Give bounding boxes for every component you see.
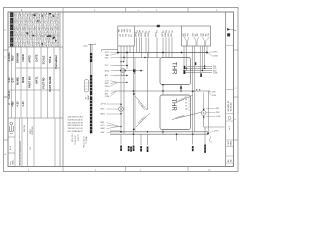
svg-text:REV: REV <box>11 55 15 61</box>
svg-text:YNN EFJ7Q-XI: YNN EFJ7Q-XI <box>68 128 81 130</box>
small dark marks above rail y91 <box>196 89 200 91</box>
svg-text:PK10: PK10 <box>105 86 110 88</box>
svg-text:MC 4-20-1: MC 4-20-1 <box>72 134 74 143</box>
svg-text:B31: B31 <box>105 93 108 95</box>
terminal trio rows lower converging <box>101 122 105 130</box>
relay contact rails right cluster <box>184 66 212 72</box>
svg-text:PK1: PK1 <box>216 108 219 110</box>
wires dropping from label row to buses <box>137 38 172 58</box>
svg-text:MV2: MV2 <box>105 83 109 85</box>
right strip rotated text blocks <box>227 101 233 162</box>
terminal single row labels <box>105 65 109 77</box>
wire y82.4 to junction <box>117 81 127 83</box>
wire J1 left edge to bus <box>117 46 119 53</box>
note rotated text columns lower left <box>72 134 88 149</box>
svg-text:DATE: DATE <box>35 54 39 61</box>
svg-text:1a-3: 1a-3 <box>229 126 231 130</box>
title block dense grid dark cells <box>26 13 56 45</box>
right side labels upper <box>213 52 218 58</box>
junction box J1 terminal labels <box>119 28 134 37</box>
bus feeder leader lines <box>110 53 119 58</box>
svg-text:V9: V9 <box>185 100 187 102</box>
title block table column lines <box>12 47 56 167</box>
svg-text:E4: E4 <box>81 117 83 119</box>
long terminal box top wire <box>135 25 182 27</box>
cable number text blobs <box>120 145 206 154</box>
svg-text:21I9: 21I9 <box>171 33 173 36</box>
bus feeder labels <box>105 52 110 59</box>
right title strip cell dividers <box>226 46 234 164</box>
svg-text:TJ0: TJ0 <box>119 30 121 33</box>
bus wire upper horizontal <box>118 52 207 54</box>
svg-text:THR: THR <box>170 62 176 75</box>
title block rotated field labels <box>7 52 58 106</box>
svg-text:QTY: QTY <box>11 77 15 83</box>
svg-text:4-20-D: 4-20-D <box>7 91 11 99</box>
svg-text:SCM EJVQT-IA: SCM EJVQT-IA <box>68 118 81 121</box>
svg-text:4-20: 4-20 <box>15 101 19 107</box>
svg-text:THR: THR <box>170 99 176 112</box>
wire tails with cable number blobs bottom <box>121 127 205 145</box>
title block table horizontal dividers <box>8 46 63 48</box>
wire label row above buses <box>136 29 175 37</box>
svg-text:CHKD: CHKD <box>21 54 25 62</box>
svg-text:DRAWN: DRAWN <box>15 53 19 63</box>
transition diagonal wire upper left <box>135 96 147 110</box>
zone tick marks left margin <box>4 50 9 140</box>
svg-text:COM2: COM2 <box>213 55 218 57</box>
svg-text:FAST RD: FAST RD <box>41 77 45 88</box>
cable core number text blobs <box>90 53 92 133</box>
transmitter output wire to right <box>204 126 225 128</box>
svg-text:PART NAME: PART NAME <box>48 76 52 91</box>
sheet outer border <box>4 8 239 172</box>
svg-text:C14: C14 <box>208 33 210 36</box>
svg-text:7NF: 7NF <box>197 33 199 36</box>
svg-text:4-T5: 4-T5 <box>101 125 105 127</box>
transmitter circle T1 with crosshair <box>201 111 206 116</box>
svg-text:SCALE: SCALE <box>41 55 45 64</box>
svg-text:BL30: BL30 <box>105 70 109 72</box>
svg-text:5RG N5S7S-33: 5RG N5S7S-33 <box>68 122 80 124</box>
svg-text:HXO 55ZBK-A5: HXO 55ZBK-A5 <box>68 130 81 133</box>
title block dark revision text column <box>10 12 13 46</box>
junction dots wire x163 <box>162 90 164 92</box>
transmitter stem wires <box>203 93 205 109</box>
THR2 right edge pin ticks and labels <box>188 98 190 110</box>
svg-text:4-20: 4-20 <box>7 77 11 83</box>
transmitter labels <box>216 108 221 118</box>
junction dots on wire x121 at lamp <box>120 104 122 106</box>
wire vertical x147.5 <box>147 53 149 111</box>
bus wire top stub <box>102 49 119 51</box>
svg-text:EZ: EZ <box>128 34 130 36</box>
wires dropping from junction box J1 <box>121 46 134 134</box>
arrow marks below bus <box>120 61 124 63</box>
svg-text:4-PT6: 4-PT6 <box>214 131 219 133</box>
wire THR2 bottom vertical <box>162 130 164 135</box>
terminal trio rows to wire y82.4 <box>105 80 110 87</box>
svg-text:PD2: PD2 <box>105 58 109 60</box>
svg-text:SIGN: SIGN <box>21 77 25 83</box>
relay THR box 2 <box>160 95 191 130</box>
svg-text:1a: 1a <box>211 142 213 144</box>
svg-text:COM: COM <box>213 73 218 75</box>
svg-text:DWG: DWG <box>230 140 232 145</box>
svg-text:No: No <box>230 160 232 162</box>
svg-text:DM TML: DM TML <box>24 125 26 132</box>
wires dropping from junction box J2 <box>184 46 207 134</box>
svg-text:4-T1: 4-T1 <box>105 80 109 82</box>
svg-text:A72: A72 <box>105 74 108 77</box>
svg-text:4QE QPNO3-5Y: 4QE QPNO3-5Y <box>68 117 82 119</box>
svg-text:COM: COM <box>105 96 110 98</box>
svg-text:MATL: MATL <box>35 76 39 83</box>
bus wire lower horizontal <box>120 57 161 59</box>
svg-text:COM: COM <box>216 116 221 118</box>
svg-text:▷: ▷ <box>216 9 218 12</box>
svg-text:SJ: SJ <box>137 30 139 32</box>
junction box J2 internal wire fan <box>184 37 210 46</box>
junction dots on lower bus <box>123 57 124 58</box>
zone tick marks top margin <box>63 8 188 13</box>
wire row extension y65.4 <box>114 64 128 66</box>
svg-text:COM: COM <box>212 95 217 97</box>
svg-text:TC-001A: TC-001A <box>85 136 88 144</box>
svg-text:mag: mag <box>10 162 12 166</box>
svg-text:FIELD 4-20-01: FIELD 4-20-01 <box>83 136 85 148</box>
junction box J2 right <box>182 26 211 46</box>
rail y91 end leaders and labels <box>209 91 212 95</box>
terminal row y75.5 with label <box>114 75 127 77</box>
transition diagonal wire lower left <box>136 113 150 127</box>
svg-text:A / 1: A / 1 <box>9 145 12 150</box>
svg-text:TMD: TMD <box>105 55 110 57</box>
svg-text:BK11: BK11 <box>101 114 105 116</box>
svg-text:TD-90-03-E: TD-90-03-E <box>75 135 77 145</box>
svg-text:TITLE: TITLE <box>48 56 52 63</box>
svg-text:PK2: PK2 <box>216 112 219 114</box>
svg-text:PX: PX <box>185 106 187 108</box>
svg-text:CERTIFIED: CERTIFIED <box>32 125 34 135</box>
junction dots wire x133.5 <box>133 93 135 95</box>
wire row from lamp to junction blob <box>125 70 133 72</box>
svg-text:APPD: APPD <box>28 55 32 62</box>
svg-text:LABEL: LABEL <box>12 159 15 165</box>
cable tag texts TC DRM rotated <box>86 95 90 100</box>
cable squiggle mark <box>209 136 210 142</box>
junction dots on rail y91 <box>133 90 135 92</box>
lamp circle B1 on row y70.6 <box>114 70 121 72</box>
lamp circle L2 on wire x121 <box>119 107 124 112</box>
company crown logo <box>9 122 14 133</box>
junction dots bottom rails <box>120 131 122 133</box>
bus end junction dot with leaders <box>206 52 208 54</box>
relay THR box 1 <box>160 58 191 85</box>
transmitter leader lines <box>206 108 215 116</box>
title block dense grid cell text <box>14 13 60 48</box>
right title strip divider line <box>225 13 227 167</box>
junction blob at wire pair <box>133 69 136 72</box>
junction dots contact rails <box>183 70 185 72</box>
junction box J2 terminal labels <box>183 32 210 36</box>
title block dense revision grid lines <box>8 12 60 47</box>
wire cable pair vertical <box>88 43 95 45</box>
terminal trio rows feeding rail y91 <box>105 91 110 98</box>
wire rail drop x208.5 <box>208 91 210 134</box>
zone tick marks right margin <box>234 50 239 140</box>
wire stub below rail x176.5 <box>176 134 178 140</box>
svg-text:4-20: 4-20 <box>11 101 15 107</box>
svg-text:PL2: PL2 <box>105 65 108 67</box>
svg-text:4-20: 4-20 <box>105 91 109 93</box>
svg-text:4-20-TC: 4-20-TC <box>78 134 80 141</box>
svg-text:NAME: NAME <box>15 77 19 85</box>
transmitter arrowheads <box>203 109 205 118</box>
svg-text:PART NO: PART NO <box>28 76 32 87</box>
wire pair vertical x133.5 x135 <box>134 58 136 133</box>
transition diagonal wire upper right <box>176 95 193 102</box>
note text block left middle <box>68 117 84 134</box>
svg-text:4-PT4: 4-PT4 <box>101 104 106 106</box>
transition diagonal wire lower right <box>172 112 201 119</box>
sheet inner drawing frame <box>8 12 234 167</box>
svg-text:WH2: WH2 <box>101 128 105 130</box>
right strip arrow marks <box>227 28 230 36</box>
svg-text:FL: FL <box>185 97 187 99</box>
wire number blobs on J2 drop wires <box>184 62 202 77</box>
svg-text:9MT F4BS3-E6: 9MT F4BS3-E6 <box>68 125 80 127</box>
svg-text:4-20: 4-20 <box>121 75 124 77</box>
svg-text:TD-90-03-E/C/98/2003-D1: TD-90-03-E/C/98/2003-D1 <box>20 140 22 165</box>
middle horizontal rail y91 <box>116 90 210 92</box>
wire THR1 to THR2 vertical <box>162 85 164 96</box>
junction dots on upper bus <box>117 52 119 54</box>
zone tick marks bottom margin <box>63 167 188 172</box>
svg-text:RD2: RD2 <box>101 109 105 111</box>
right strip small circle mark <box>228 117 231 120</box>
svg-text:M30: M30 <box>101 122 105 124</box>
junction box J1 left <box>118 26 135 46</box>
bottom rail upper y131.8 <box>110 131 208 133</box>
svg-text:A-DWG: A-DWG <box>7 52 11 61</box>
wire x181 below THR1 with number blob <box>180 85 182 92</box>
bottom rail lower y134.2 <box>110 133 208 135</box>
svg-text:4-20: 4-20 <box>21 101 25 107</box>
right side labels contact rails <box>213 66 218 75</box>
bottom rail short stub <box>110 129 120 131</box>
svg-text:PermaBlad: PermaBlad <box>54 55 58 69</box>
title block small rotated words bottom rows <box>9 125 34 166</box>
terminal rows to lamp circle L2 <box>101 104 106 116</box>
cable gland symbol <box>84 80 88 93</box>
svg-text:GN7: GN7 <box>101 132 105 134</box>
svg-text:4-PT2: 4-PT2 <box>213 52 218 54</box>
bottom rail end leader and label <box>209 131 213 133</box>
wire to end dot and tick <box>136 70 141 72</box>
svg-text:FU: FU <box>185 103 187 105</box>
svg-text:DRM: DRM <box>88 95 90 100</box>
svg-text:99: 99 <box>142 31 144 33</box>
svg-text:TD-90-003: TD-90-003 <box>231 102 233 111</box>
title block table right edge lines <box>59 12 61 167</box>
